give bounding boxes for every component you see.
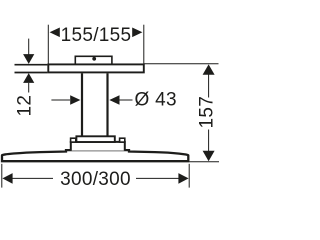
svg-text:157: 157 <box>197 96 218 129</box>
svg-text:Ø 43: Ø 43 <box>135 90 177 111</box>
svg-text:12: 12 <box>15 95 36 117</box>
svg-text:155/155: 155/155 <box>61 25 132 46</box>
svg-text:300/300: 300/300 <box>60 169 131 190</box>
